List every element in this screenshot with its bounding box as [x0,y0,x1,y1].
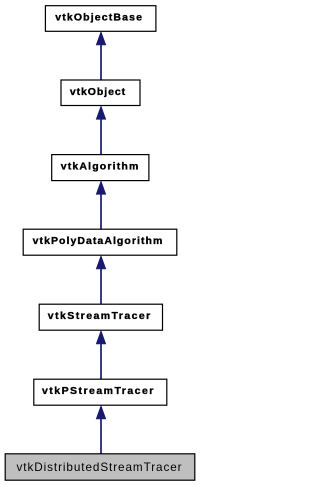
svg-text:vtkPStreamTracer: vtkPStreamTracer [42,385,155,397]
class box vtkPolyDataAlgorithm [23,229,177,255]
class box vtkAlgorithm [52,155,149,181]
inheritance arrow vtkObject -> vtkObjectBase [96,32,106,80]
inheritance arrow vtkStreamTracer -> vtkPolyDataAlgorithm [96,256,106,305]
class box vtkPStreamTracer [34,379,167,405]
class box vtkObjectBase [45,6,155,32]
class box vtkStreamTracer [39,304,162,330]
svg-text:vtkPolyDataAlgorithm: vtkPolyDataAlgorithm [33,235,164,247]
current class box vtkDistributedStreamTracer (grey) [5,454,195,480]
inheritance arrow vtkPolyDataAlgorithm -> vtkAlgorithm [96,181,106,229]
inheritance arrow vtkDistributedStreamTracer -> vtkPStreamTracer [96,406,106,454]
inheritance arrow vtkAlgorithm -> vtkObject [96,106,106,155]
class box vtkObject [61,80,140,106]
svg-text:vtkDistributedStreamTracer: vtkDistributedStreamTracer [17,461,183,474]
svg-text:vtkObject: vtkObject [70,86,126,98]
svg-text:vtkObjectBase: vtkObjectBase [55,12,143,24]
inheritance arrow vtkPStreamTracer -> vtkStreamTracer [96,331,106,380]
svg-text:vtkStreamTracer: vtkStreamTracer [48,310,152,322]
svg-text:vtkAlgorithm: vtkAlgorithm [61,161,140,173]
